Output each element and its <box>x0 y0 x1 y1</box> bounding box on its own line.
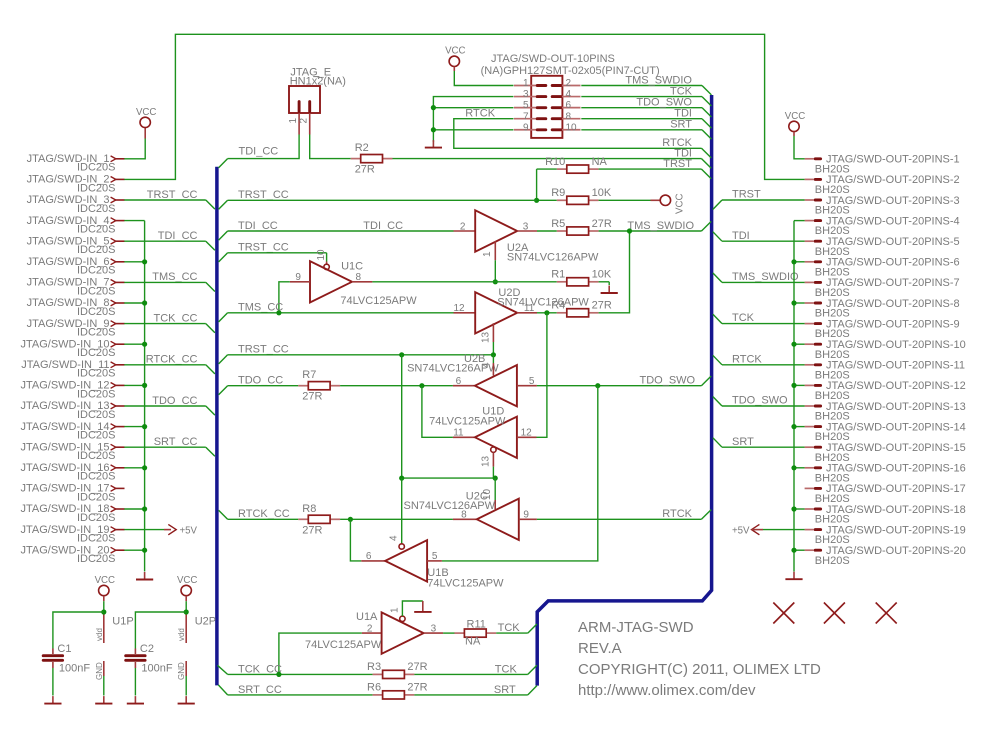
wire TMS_SWDIO from 10PINS to bus <box>581 74 711 95</box>
connector pin JTAG/SWD-OUT-20PINS-7 (BH20S) <box>805 277 960 299</box>
svg-text:IDC20S: IDC20S <box>77 203 116 215</box>
junction TDO_CC / U1D branch <box>419 383 424 388</box>
wire TDI_CC from bus to JTAG_E pin1 <box>219 135 300 168</box>
wire TCK_CC from bus to R3 <box>218 663 373 675</box>
svg-text:9: 9 <box>295 272 301 283</box>
svg-text:U1P: U1P <box>112 616 133 628</box>
wire RTCK_CC from IN_11 to bus <box>124 354 215 374</box>
svg-text:NA: NA <box>465 636 481 648</box>
svg-text:TDI_CC: TDI_CC <box>238 220 278 232</box>
connector pin JTAG/SWD-IN_1 (IDC20S) <box>27 153 125 174</box>
junction at OUT_14 <box>791 424 796 429</box>
wire GND chain of IN connector <box>124 221 144 572</box>
op-amp buffer U2B SN74LVC126APW (mirrored) <box>407 353 537 406</box>
resistor R1 10K <box>551 269 612 286</box>
svg-text:VCC: VCC <box>177 575 197 586</box>
connector pin JTAG/SWD-OUT-20PINS-10 (BH20S) <box>805 339 966 361</box>
wire R8 node to U2C output <box>340 518 453 520</box>
svg-text:27R: 27R <box>302 391 322 403</box>
svg-text:GND: GND <box>95 662 104 680</box>
svg-text:R11: R11 <box>467 618 486 630</box>
svg-text:2: 2 <box>460 221 466 232</box>
wire IN_1 to VCC <box>124 128 145 159</box>
svg-text:5: 5 <box>529 376 535 387</box>
svg-text:VCC: VCC <box>785 111 805 122</box>
wire TCK from R11 to bus <box>496 622 537 634</box>
op-amp buffer U2D SN74LVC126APW <box>453 287 589 343</box>
svg-text:2: 2 <box>299 118 310 124</box>
svg-text:RTCK: RTCK <box>662 137 692 149</box>
svg-text:TDO_CC: TDO_CC <box>152 395 197 407</box>
resistor R3 27R <box>367 661 428 678</box>
svg-text:TCK: TCK <box>498 622 521 634</box>
power VCC (top left) <box>136 107 156 139</box>
wire SRT_CC from IN_15 to bus <box>124 436 215 456</box>
svg-text:74LVC125APW: 74LVC125APW <box>340 295 417 307</box>
wire R7 to U2B output <box>340 385 453 387</box>
junction U2A pin1 <box>493 279 498 284</box>
power VCC (U1P) <box>95 575 115 612</box>
wire TDI_CC from IN_5 to bus <box>124 230 215 250</box>
power pins U2P <box>177 612 216 696</box>
svg-text:R10: R10 <box>545 156 565 168</box>
op-amp buffer U2C SN74LVC126APW (mirrored) <box>404 491 537 540</box>
ground (U1A enable, inverted) <box>414 601 431 612</box>
wire U1C output to R1 <box>372 281 556 283</box>
svg-text:http://www.olimex.com/dev: http://www.olimex.com/dev <box>578 682 756 699</box>
resistor R5 27R <box>537 218 612 235</box>
svg-text:TDO_SWO: TDO_SWO <box>732 395 788 407</box>
resistor R8 27R <box>298 503 340 537</box>
svg-text:5: 5 <box>432 551 438 562</box>
svg-text:TDO_CC: TDO_CC <box>238 375 283 387</box>
wire TMS_SWDIO from R5 to bus <box>599 220 712 232</box>
power VCC (U2P) <box>177 575 197 612</box>
svg-text:TRST_CC: TRST_CC <box>147 189 198 201</box>
ground (R1) <box>599 282 618 293</box>
svg-text:IDC20S: IDC20S <box>77 285 116 297</box>
svg-text:13: 13 <box>480 331 491 343</box>
wire SRT from 10PINS to bus <box>581 119 711 140</box>
junction at IN_8 <box>142 300 147 305</box>
wire U2A pin1 enable <box>494 260 496 282</box>
connector pin JTAG/SWD-OUT-20PINS-9 (BH20S) <box>805 318 960 340</box>
svg-text:IDC20S: IDC20S <box>77 224 116 236</box>
resistor R4 27R <box>551 300 612 317</box>
svg-text:+5V: +5V <box>180 525 198 536</box>
svg-text:SRT: SRT <box>732 436 754 448</box>
svg-text:C1: C1 <box>57 643 71 655</box>
connector pin JTAG/SWD-IN_13 (IDC20S) <box>20 400 124 421</box>
connector pin JTAG/SWD-IN_11 (IDC20S) <box>21 359 124 380</box>
svg-text:ARM-JTAG-SWD: ARM-JTAG-SWD <box>578 619 694 636</box>
ground (OUT connector) <box>785 572 802 580</box>
svg-text:RTCK: RTCK <box>662 508 692 520</box>
X mark 1 <box>773 603 794 624</box>
svg-text:IDC20S: IDC20S <box>77 553 116 565</box>
svg-text:SRT: SRT <box>670 119 692 131</box>
wire enable chain horizontal <box>402 477 496 479</box>
wire TRST from bus to OUT-3 <box>713 189 805 210</box>
svg-text:27R: 27R <box>302 524 322 536</box>
junction enable chain right <box>493 476 498 481</box>
svg-text:+5V: +5V <box>732 525 750 536</box>
svg-text:74LVC125APW: 74LVC125APW <box>429 415 506 427</box>
ground (U2P) <box>178 696 195 704</box>
resistor R11 NA <box>443 618 496 647</box>
junction at OUT_10 <box>791 342 796 347</box>
junction at IN_18 <box>142 506 147 511</box>
connector pin JTAG/SWD-OUT-20PINS-20 (BH20S) <box>805 545 966 567</box>
svg-text:TRST: TRST <box>732 189 761 201</box>
svg-text:TRST_CC: TRST_CC <box>238 344 289 356</box>
connector pin JTAG/SWD-OUT-20PINS-19 (BH20S) <box>805 524 966 546</box>
wire VCC to OUT-20PINS-1 <box>794 136 805 159</box>
svg-text:IDC20S: IDC20S <box>77 388 116 400</box>
svg-text:IDC20S: IDC20S <box>77 265 116 277</box>
svg-text:TCK_CC: TCK_CC <box>153 312 197 324</box>
junction at OUT_6 <box>791 259 796 264</box>
capacitor C1 100nF <box>43 612 104 696</box>
wire VCC to 10PINS pin1 <box>454 71 513 86</box>
svg-text:U1A: U1A <box>356 611 378 623</box>
svg-text:TMS_CC: TMS_CC <box>152 271 197 283</box>
wire TMS_CC from bus to U2D <box>219 302 454 322</box>
junction TRST_CC U2D/U2B <box>491 352 496 357</box>
connector pin JTAG/SWD-IN_15 (IDC20S) <box>20 441 124 462</box>
wire TDO_CC branch to U1D output <box>422 386 453 438</box>
svg-text:SRT: SRT <box>494 684 516 696</box>
svg-text:IDC20S: IDC20S <box>77 491 116 503</box>
junction 10PINS pin9 <box>431 127 436 132</box>
junction TMS_SWDIO / R4 branch <box>627 228 632 233</box>
svg-text:R5: R5 <box>551 218 565 230</box>
junction enable chain left <box>399 476 404 481</box>
wire U2D output to U1D input <box>537 313 547 438</box>
wire TCK from bus to OUT-9 <box>713 312 805 324</box>
ground (U1P) <box>95 696 112 704</box>
connector pin JTAG/SWD-IN_8 (IDC20S) <box>27 297 125 318</box>
wire TRST_CC from bus to U2D/U2B enables <box>219 344 494 364</box>
svg-text:TRST_CC: TRST_CC <box>238 242 289 254</box>
capacitor C2 100nF <box>126 612 187 696</box>
wire SRT from bus to OUT-15 <box>713 436 805 448</box>
connector pin JTAG/SWD-IN_14 (IDC20S) <box>20 421 124 442</box>
svg-text:TCK_CC: TCK_CC <box>238 663 282 675</box>
svg-text:U2P: U2P <box>195 616 216 628</box>
svg-text:2: 2 <box>367 623 373 634</box>
svg-text:100nF: 100nF <box>141 662 172 674</box>
svg-text:8: 8 <box>566 111 572 122</box>
svg-text:RTCK: RTCK <box>732 353 762 365</box>
wire RTCK from 10PINS pin7 to bus <box>454 107 711 158</box>
connector pin JTAG/SWD-OUT-20PINS-8 (BH20S) <box>805 298 960 320</box>
wire TRST_CC vertical R10-R9 link <box>536 169 538 200</box>
junction at OUT_16 <box>791 465 796 470</box>
bus (left vertical) <box>215 167 219 686</box>
junction at IN_6 <box>142 259 147 264</box>
connector pin JTAG/SWD-IN_2 (IDC20S) <box>27 174 125 195</box>
supply +5V (right) <box>732 524 805 536</box>
svg-text:R6: R6 <box>367 682 381 694</box>
wire TMS_SWDIO from bus to OUT-7 <box>713 271 805 283</box>
junction TMS_CC / U1C input <box>276 310 281 315</box>
svg-text:COPYRIGHT(C) 2011, OLIMEX LTD: COPYRIGHT(C) 2011, OLIMEX LTD <box>578 661 821 678</box>
svg-text:TDI_CC: TDI_CC <box>363 220 403 232</box>
wire TRST_CC from IN_3 to bus <box>124 189 215 209</box>
connector pin JTAG/SWD-OUT-20PINS-1 (BH20S) <box>805 154 960 176</box>
svg-text:NA: NA <box>592 156 608 168</box>
connector pin JTAG/SWD-IN_16 (IDC20S) <box>20 462 124 483</box>
svg-text:12: 12 <box>453 303 465 314</box>
wire TDO_CC from IN_13 to bus <box>124 395 215 415</box>
wire enable chain vertical <box>401 355 403 478</box>
ground (C1) <box>44 696 61 704</box>
wire TDO_SWO from 10PINS to bus <box>581 96 711 117</box>
junction U2D output <box>544 310 549 315</box>
svg-text:IDC20S: IDC20S <box>77 306 116 318</box>
wire R8 node to U1B output <box>350 519 361 561</box>
svg-text:TMS_SWDIO: TMS_SWDIO <box>732 271 799 283</box>
svg-text:R7: R7 <box>302 369 316 381</box>
wire RTCK from U2C to bus <box>537 508 711 520</box>
ground (C2) <box>127 696 144 704</box>
svg-text:3: 3 <box>431 623 437 634</box>
svg-text:IDC20S: IDC20S <box>77 162 116 174</box>
resistor R7 27R <box>298 369 340 403</box>
op-amp buffer U1A 74LVC125APW <box>305 607 443 654</box>
svg-text:27R: 27R <box>592 300 612 312</box>
junction TCK_CC / U1A input <box>276 672 281 677</box>
svg-text:4: 4 <box>566 89 572 100</box>
connector JTAG/SWD-OUT-10PINS (NA)GPH127SMT-02x05(PIN7-CUT) <box>481 53 660 138</box>
wire TDO_SWO branch to U1B input <box>442 386 598 561</box>
connector pin JTAG/SWD-IN_6 (IDC20S) <box>27 256 125 277</box>
svg-text:9: 9 <box>523 510 529 521</box>
svg-text:6: 6 <box>456 376 462 387</box>
bus (right section) <box>537 95 711 686</box>
svg-text:74LVC125APW: 74LVC125APW <box>427 578 504 590</box>
wire TCK from 10PINS to bus <box>581 85 711 106</box>
svg-text:8: 8 <box>356 272 362 283</box>
power VCC (top right) <box>785 111 805 136</box>
svg-text:27R: 27R <box>407 661 427 673</box>
connector pin JTAG/SWD-IN_3 (IDC20S) <box>27 194 125 215</box>
svg-text:100nF: 100nF <box>59 662 90 674</box>
junction at IN_16 <box>142 465 147 470</box>
svg-text:SN74LVC126APW: SN74LVC126APW <box>507 252 599 264</box>
supply +5V (left) <box>124 524 197 536</box>
junction R8 node <box>348 517 353 522</box>
connector pin JTAG/SWD-OUT-20PINS-14 (BH20S) <box>805 421 966 443</box>
svg-text:IDC20S: IDC20S <box>77 347 116 359</box>
junction at IN_10 <box>142 342 147 347</box>
svg-text:TDI_CC: TDI_CC <box>158 230 198 242</box>
svg-text:TCK: TCK <box>732 312 755 324</box>
svg-text:5: 5 <box>523 100 529 111</box>
junction TRST_CC at R9 <box>534 198 539 203</box>
svg-text:SN74LVC126APW: SN74LVC126APW <box>497 297 589 309</box>
svg-text:TCK: TCK <box>495 663 518 675</box>
wire SRT from R6 to bus <box>414 684 537 696</box>
wire TDI from R2 to bus <box>393 148 712 169</box>
wire TCK from R3 to bus <box>414 663 537 675</box>
connector pin JTAG/SWD-IN_17 (IDC20S) <box>20 483 124 504</box>
ground (IN connector) <box>136 572 153 580</box>
svg-text:SRT_CC: SRT_CC <box>238 684 282 696</box>
junction TRST_CC enable chain <box>399 352 404 357</box>
svg-text:27R: 27R <box>407 682 427 694</box>
power pins U1P <box>95 612 134 696</box>
X mark 3 <box>876 603 897 624</box>
connector pin JTAG/SWD-IN_9 (IDC20S) <box>27 318 125 339</box>
svg-text:2: 2 <box>566 78 572 89</box>
svg-text:IDC20S: IDC20S <box>77 368 116 380</box>
connector pin JTAG/SWD-OUT-20PINS-18 (BH20S) <box>805 504 966 526</box>
svg-text:10: 10 <box>316 249 327 261</box>
connector pin JTAG/SWD-OUT-20PINS-17 (BH20S) <box>805 483 966 505</box>
resistor R2 27R <box>351 142 393 176</box>
wire U1A enable to GND <box>402 601 422 616</box>
svg-text:IDC20S: IDC20S <box>77 471 116 483</box>
op-amp buffer U1B 74LVC125APW (mirrored) <box>361 535 504 590</box>
junction at OUT_8 <box>791 300 796 305</box>
svg-text:4: 4 <box>481 362 492 368</box>
wire TCK_CC from IN_9 to bus <box>124 312 215 332</box>
connector pin JTAG/SWD-OUT-20PINS-11 (BH20S) <box>805 360 965 382</box>
svg-text:6: 6 <box>566 100 572 111</box>
svg-text:TRST: TRST <box>663 158 692 170</box>
junction 10PINS pin5 <box>431 105 436 110</box>
svg-text:RTCK_CC: RTCK_CC <box>238 508 290 520</box>
op-amp buffer U1D 74LVC125APW (mirrored) <box>429 405 536 467</box>
junction at IN_20 <box>142 548 147 553</box>
connector pin JTAG/SWD-IN_10 (IDC20S) <box>20 338 124 359</box>
connector pin JTAG/SWD-IN_20 (IDC20S) <box>20 544 124 565</box>
connector pin JTAG/SWD-IN_5 (IDC20S) <box>27 235 125 256</box>
svg-text:IDC20S: IDC20S <box>77 450 116 462</box>
svg-text:10: 10 <box>566 122 578 133</box>
connector pin JTAG/SWD-OUT-20PINS-5 (BH20S) <box>805 236 960 258</box>
wire U1A input from TCK_CC <box>279 633 362 674</box>
svg-text:74LVC125APW: 74LVC125APW <box>305 639 382 651</box>
svg-text:U1C: U1C <box>341 260 363 272</box>
svg-text:TMS_SWDIO: TMS_SWDIO <box>627 220 694 232</box>
svg-text:TDI_CC: TDI_CC <box>239 146 279 158</box>
connector pin JTAG/SWD-OUT-20PINS-16 (BH20S) <box>805 463 966 485</box>
svg-text:3: 3 <box>523 89 529 100</box>
connector pin JTAG/SWD-OUT-20PINS-12 (BH20S) <box>805 380 966 402</box>
svg-text:IDC20S: IDC20S <box>77 533 116 545</box>
svg-text:GND: GND <box>177 662 186 680</box>
svg-text:R3: R3 <box>367 661 381 673</box>
power VCC (rotated, at R9) <box>599 194 686 214</box>
svg-text:VCC: VCC <box>136 107 156 118</box>
svg-text:vdd: vdd <box>95 628 104 641</box>
svg-text:VCC: VCC <box>95 575 115 586</box>
wire RTCK from bus to OUT-11 <box>713 353 805 365</box>
svg-text:JTAG/SWD-OUT-10PINS: JTAG/SWD-OUT-10PINS <box>491 53 615 65</box>
svg-text:REV.A: REV.A <box>578 640 622 657</box>
wire U2B pin4 enable <box>492 355 494 363</box>
wire U2D pin13 enable to TRST_CC <box>492 342 494 355</box>
wire TDO_CC from bus to R7 <box>219 375 299 395</box>
svg-text:VCC: VCC <box>445 46 465 57</box>
svg-text:1: 1 <box>288 118 299 124</box>
X mark 2 <box>824 603 845 624</box>
svg-text:R2: R2 <box>355 142 369 154</box>
wire IN_2 over top to OUT-20PINS-2 <box>124 34 804 179</box>
connector pin JTAG/SWD-IN_4 (IDC20S) <box>27 215 125 236</box>
wire U2D output node <box>537 312 557 314</box>
connector pin JTAG/SWD-OUT-20PINS-15 (BH20S) <box>805 442 966 464</box>
wire TRST from R10 to bus <box>599 158 712 179</box>
svg-text:IDC20S: IDC20S <box>77 244 116 256</box>
svg-text:RTCK: RTCK <box>465 107 495 119</box>
svg-text:SN74LVC126APW: SN74LVC126APW <box>404 500 496 512</box>
wire TDI from bus to OUT-5 <box>713 230 805 242</box>
svg-text:R4: R4 <box>551 300 565 312</box>
svg-text:IDC20S: IDC20S <box>77 182 116 194</box>
svg-text:BH20S: BH20S <box>815 555 850 567</box>
wire GND chain of OUT connector <box>794 221 805 572</box>
junction at IN_12 <box>142 383 147 388</box>
connector JTAG_E HN1x2(NA) <box>288 66 346 134</box>
junction at OUT_18 <box>791 506 796 511</box>
wire JTAG_E pin2 to R2 <box>310 135 351 159</box>
junction VCC node U1P <box>101 609 106 614</box>
svg-text:10K: 10K <box>592 269 612 281</box>
op-amp buffer U1C 74LVC125APW <box>290 249 417 307</box>
junction at OUT_12 <box>791 383 796 388</box>
connector pin JTAG/SWD-OUT-20PINS-6 (BH20S) <box>805 257 960 279</box>
svg-text:IDC20S: IDC20S <box>77 409 116 421</box>
connector pin JTAG/SWD-IN_19 (IDC20S) <box>20 524 124 545</box>
junction VCC node U2P <box>184 609 189 614</box>
svg-text:11: 11 <box>453 428 464 439</box>
svg-text:4: 4 <box>389 535 400 541</box>
svg-text:R1: R1 <box>551 269 565 281</box>
junction at IN_14 <box>142 424 147 429</box>
wire TDO_SWO from bus to OUT-13 <box>713 395 805 407</box>
svg-text:27R: 27R <box>355 164 375 176</box>
wire TDO_SWO from U2B to bus <box>537 375 711 387</box>
wire RTCK_CC from bus to R8 <box>219 508 299 520</box>
connector pin JTAG/SWD-IN_7 (IDC20S) <box>27 277 125 298</box>
wire U2C pin10 enable <box>482 478 495 509</box>
power VCC (top middle) <box>445 46 465 71</box>
svg-text:6: 6 <box>366 551 372 562</box>
svg-text:RTCK_CC: RTCK_CC <box>146 354 198 366</box>
wire U1C input from TMS_CC <box>279 282 290 313</box>
svg-text:TDO_SWO: TDO_SWO <box>640 375 696 387</box>
resistor R6 27R <box>367 682 428 699</box>
svg-text:7: 7 <box>523 111 529 122</box>
connector pin JTAG/SWD-OUT-20PINS-13 (BH20S) <box>805 401 966 423</box>
ground (10PINS) <box>425 140 442 148</box>
svg-text:TDI: TDI <box>732 230 750 242</box>
svg-text:1: 1 <box>482 251 493 257</box>
svg-text:IDC20S: IDC20S <box>77 430 116 442</box>
connector pin JTAG/SWD-OUT-20PINS-4 (BH20S) <box>805 215 960 237</box>
svg-text:R9: R9 <box>551 187 565 199</box>
svg-text:1: 1 <box>389 607 400 613</box>
wire TMS_CC from IN_7 to bus <box>124 271 215 291</box>
svg-text:13: 13 <box>480 455 491 467</box>
svg-text:3: 3 <box>523 221 529 232</box>
resistor R10 NA <box>537 156 608 173</box>
svg-text:IDC20S: IDC20S <box>77 512 116 524</box>
